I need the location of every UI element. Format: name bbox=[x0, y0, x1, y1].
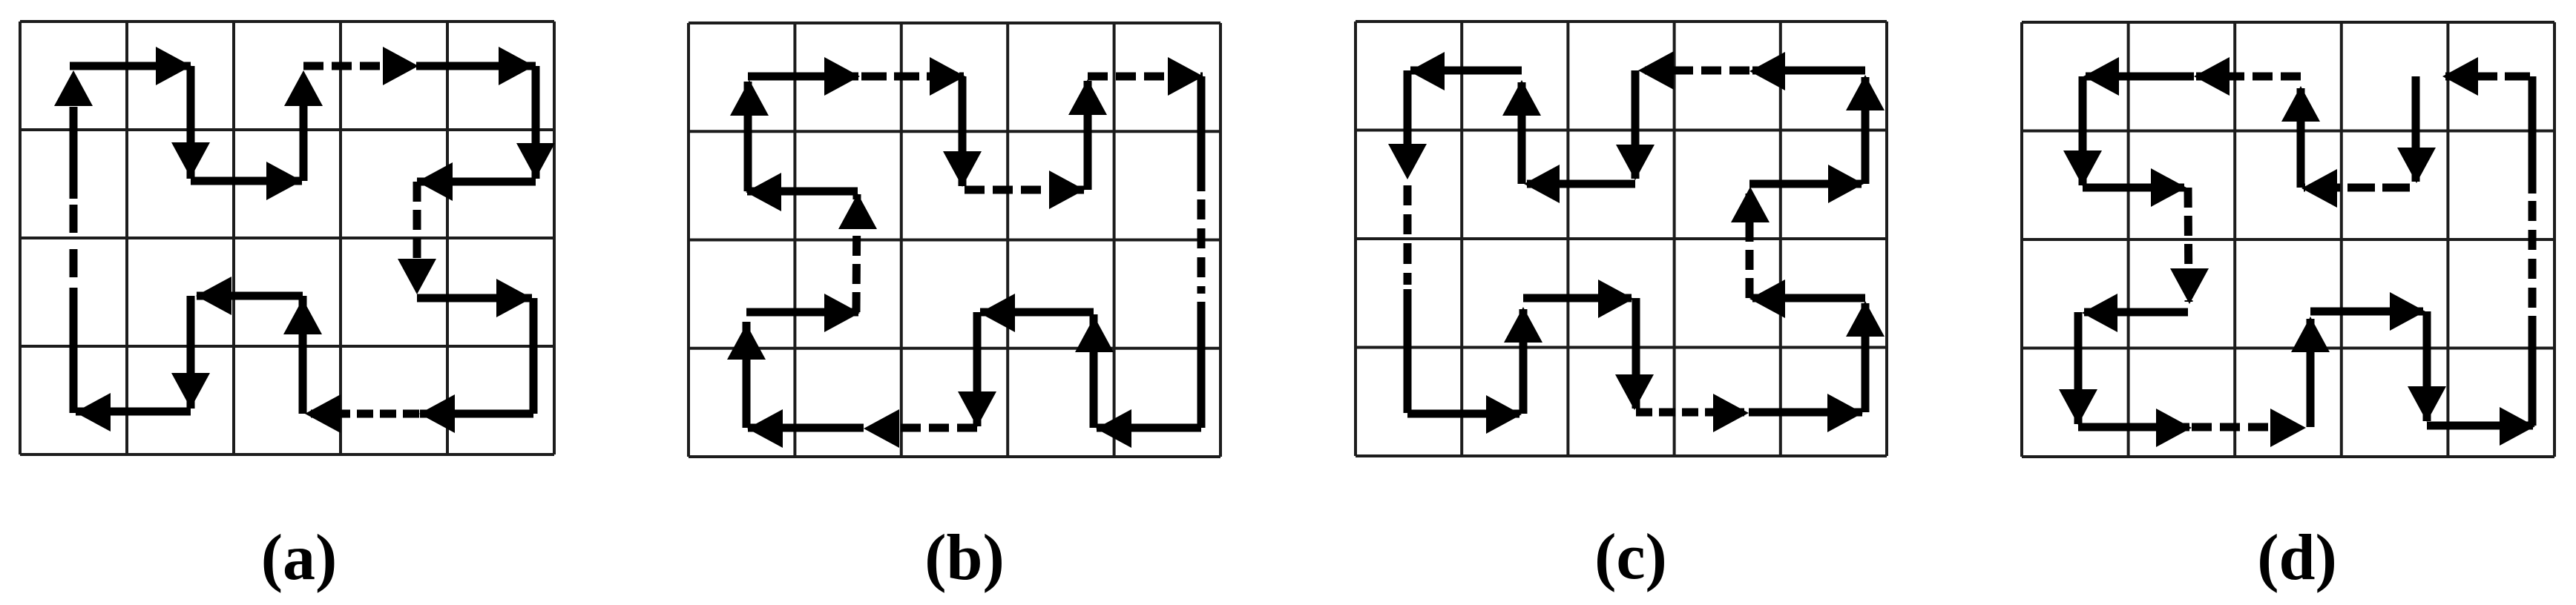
arrowhead b down into (3,4) bbox=[958, 391, 996, 427]
arrowhead d right into (2,4) bbox=[2156, 409, 2192, 447]
arrowhead a right into (2,1) bbox=[156, 47, 191, 85]
arrowhead c right into (4,4) bbox=[1713, 394, 1749, 432]
wire a (2,2)->(3,2) bbox=[191, 177, 302, 185]
arrowhead b right into (4,2) bbox=[1049, 171, 1085, 209]
arrowhead d left into (1,1) bbox=[2083, 57, 2119, 96]
wire d (3,2)->(3,1) bbox=[2297, 88, 2305, 188]
wire b (3,2)->(4,2) dashed bbox=[965, 186, 1084, 194]
arrowhead a right into (4,1) bbox=[383, 47, 418, 85]
wire d (2,4)->(3,4) dashed bbox=[2192, 423, 2304, 432]
wire c col1 dash3 bbox=[1404, 243, 1412, 264]
wire d (1,2)->(2,2) bbox=[2083, 184, 2184, 192]
arrowhead d left into (4,1) bbox=[2442, 57, 2478, 96]
arrowhead c right into (5,4) bbox=[1827, 394, 1863, 432]
wire d (1,3)->(1,4) bbox=[2074, 312, 2083, 424]
wire b (1,2)->(1,1) bbox=[744, 82, 752, 191]
arrowhead d left into (1,3) bbox=[2082, 294, 2117, 332]
wire c col1 upper bbox=[1404, 70, 1412, 145]
wire a (5,3)->(5,4) bbox=[530, 298, 538, 414]
arrowhead d right into (2,2) bbox=[2151, 168, 2186, 207]
wire a (4,1)->(5,1) bbox=[418, 62, 536, 70]
arrowhead c left into (4,3) bbox=[1749, 280, 1785, 318]
wire d (5,1)->(4,1) dashed bbox=[2445, 73, 2530, 81]
arrowhead b right into (3,1) bbox=[930, 57, 965, 96]
arrowhead d down into (4,4) bbox=[2408, 386, 2446, 422]
panel (a) 5x4 grid bbox=[20, 22, 554, 454]
wire a col1 lower bbox=[70, 288, 78, 413]
arrowhead a down into (2,2) bbox=[171, 142, 210, 178]
arrowhead a left into (1,4) bbox=[75, 393, 111, 432]
wire c (2,2)->(2,1) bbox=[1518, 82, 1526, 184]
wire b col5 upper bbox=[1197, 76, 1206, 191]
arrowhead a left into (2,3) bbox=[196, 277, 231, 315]
wire d (3,1)->(2,1) dashed bbox=[2195, 73, 2301, 81]
wire a (3,2)->(3,1) bbox=[300, 105, 308, 181]
wire b (4,4)->(4,3) bbox=[1090, 314, 1098, 428]
arrowhead b right into (2,3) bbox=[824, 294, 860, 332]
wire b (4,2)->(4,1) bbox=[1084, 81, 1092, 190]
panel (d) 5x4 grid bbox=[2022, 22, 2554, 457]
arrowhead c left into (2,2) bbox=[1524, 165, 1560, 203]
wire a (5,2)->(4,2) bbox=[417, 178, 536, 186]
arrowhead c up into (2,1) bbox=[1502, 80, 1541, 116]
arrowhead c right into (3,3) bbox=[1598, 280, 1634, 318]
arrowhead d right into (3,4) bbox=[2270, 409, 2306, 447]
wire a (1,1)->(2,1) bbox=[70, 62, 191, 70]
wire d (3,4)->(3,3) bbox=[2307, 319, 2315, 427]
wire a (5,4)->(4,4) bbox=[420, 410, 533, 418]
arrowhead c up into (5,3) bbox=[1846, 301, 1885, 337]
wire b (2,1)->(3,1) dashed bbox=[861, 73, 964, 81]
arrowhead a right into (5,3) bbox=[496, 279, 532, 317]
arrowhead a right into (5,1) bbox=[499, 47, 534, 85]
svg-text:(c): (c) bbox=[1594, 521, 1667, 593]
arrowhead b up into (1,3) bbox=[727, 324, 766, 360]
arrowhead b right into (2,1) bbox=[824, 57, 860, 96]
wire c (3,3)->(3,4) bbox=[1632, 298, 1640, 409]
wire d col5 upper bbox=[2529, 76, 2537, 194]
wire b (1,3)->(2,3) bbox=[746, 308, 858, 317]
wire b col5 middle dashed bbox=[1197, 199, 1206, 294]
wire b col5 lower bbox=[1197, 302, 1206, 428]
arrowhead b up into (4,3) bbox=[1075, 317, 1114, 352]
arrowhead c right into (2,4) bbox=[1486, 395, 1522, 434]
panel (c) 5x4 grid bbox=[1356, 22, 1887, 456]
wire c (5,3)->(4,3) bbox=[1752, 294, 1865, 302]
panel (b) 5x4 grid bbox=[689, 23, 1220, 457]
wire c col1 dash4 bbox=[1404, 273, 1412, 285]
wire b (5,4)->(4,4) bbox=[1097, 424, 1201, 432]
wire a col1 dash1 bbox=[70, 249, 78, 277]
wire a (2,1)->(2,2) bbox=[187, 66, 195, 179]
svg-text:(b): (b) bbox=[924, 522, 1005, 594]
wire a (4,4)->(3,4) dashed bbox=[304, 410, 419, 418]
arrowhead b up into (2,2) bbox=[838, 194, 877, 229]
arrowhead c left into (3,1) bbox=[1638, 51, 1674, 90]
wire d (2,1)->(1,1) bbox=[2086, 73, 2194, 81]
wire b (2,3)->(2,2) dashed bbox=[856, 194, 857, 312]
wire a col1 dash2 bbox=[70, 205, 78, 233]
wire c (5,2)->(5,1) bbox=[1862, 77, 1870, 184]
wire d col5 middle dashed bbox=[2529, 200, 2537, 308]
arrowhead c up into (4,2) bbox=[1731, 187, 1770, 222]
wire a (3,1)->(4,1) dashed bbox=[303, 62, 418, 70]
wire a (4,3)->(5,3) bbox=[417, 294, 532, 302]
arrowhead d right into (5,4) bbox=[2500, 407, 2535, 446]
arrowhead d right into (4,3) bbox=[2390, 292, 2425, 331]
wire d (1,4)->(2,4) bbox=[2078, 423, 2189, 432]
wire c col1 lower bbox=[1404, 289, 1412, 413]
wire d (4,2)->(3,2) dashed bbox=[2304, 184, 2410, 192]
arrowhead c down into (3,2) bbox=[1616, 145, 1655, 180]
arrowhead c left into (1,1) bbox=[1409, 52, 1445, 90]
wire b (4,3)->(3,3) bbox=[980, 308, 1094, 317]
arrowhead d up into (3,1) bbox=[2281, 86, 2320, 122]
wire d (4,3)->(4,4) bbox=[2423, 311, 2431, 421]
wire a (5,1)->(5,2) bbox=[532, 66, 540, 179]
arrowhead d left into (2,1) bbox=[2194, 57, 2230, 96]
wire a col1 upper bbox=[70, 107, 78, 199]
svg-text:(d): (d) bbox=[2257, 522, 2337, 594]
arrowhead c down into (3,4) bbox=[1615, 374, 1654, 410]
arrowhead d down into (1,2) bbox=[2063, 151, 2102, 186]
arrowhead c up into (2,3) bbox=[1504, 307, 1542, 343]
arrowhead b down into (3,2) bbox=[943, 151, 982, 187]
wire b (3,4)->(2,4) dashed bbox=[864, 424, 977, 432]
wire d (4,1)->(4,2) bbox=[2412, 76, 2420, 182]
arrowhead b right into (5,1) bbox=[1168, 57, 1203, 96]
arrowhead b left into (1,4) bbox=[747, 409, 783, 448]
wire c (4,3)->(4,2) dashed bbox=[1746, 189, 1754, 298]
wire d (2,3)->(1,3) bbox=[2084, 308, 2188, 317]
arrowhead b left into (4,4) bbox=[1096, 409, 1131, 448]
arrowhead c right into (5,2) bbox=[1828, 165, 1864, 203]
wire a (3,3)->(2,3) bbox=[197, 292, 303, 300]
wire d (4,4)->(5,4) bbox=[2427, 422, 2533, 430]
wire d (1,1)->(1,2) bbox=[2079, 76, 2087, 185]
arrowhead a down into (4,3) bbox=[398, 259, 436, 294]
wire b (1,1)->(2,1) bbox=[748, 73, 858, 81]
arrowhead d down into (1,4) bbox=[2059, 389, 2097, 425]
arrowhead b left into (1,2) bbox=[746, 173, 781, 211]
wire b (2,2)->(1,2) bbox=[747, 188, 858, 196]
wire a (3,4)->(3,3) bbox=[299, 296, 307, 414]
arrowhead a left into (4,2) bbox=[417, 162, 453, 201]
wire c (2,4)->(2,3) bbox=[1519, 309, 1528, 414]
arrowhead d down into (2,3) bbox=[2170, 268, 2209, 304]
wire d (3,3)->(4,3) bbox=[2310, 308, 2423, 316]
arrowhead b left into (3,3) bbox=[979, 294, 1015, 332]
wire c (3,2)->(2,2) bbox=[1527, 180, 1635, 188]
wire d (2,2)->(2,3) dashed bbox=[2188, 188, 2189, 302]
arrowhead d left into (3,2) bbox=[2301, 169, 2337, 208]
arrowhead b up into (4,1) bbox=[1068, 79, 1107, 115]
wire c (3,4)->(4,4) dashed bbox=[1636, 409, 1747, 417]
wire c (1,4)->(2,4) bbox=[1407, 410, 1519, 418]
arrowhead c left into (4,1) bbox=[1749, 52, 1785, 90]
arrowhead d up into (3,3) bbox=[2291, 317, 2330, 352]
wire c (4,1)->(3,1) dashed bbox=[1639, 67, 1749, 75]
wire b (3,3)->(3,4) bbox=[973, 312, 982, 426]
arrowhead b up into (1,1) bbox=[730, 80, 769, 116]
wire b (1,4)->(1,3) bbox=[743, 322, 751, 428]
wire d col5 lower bbox=[2529, 316, 2537, 426]
wire c (2,1)->(1,1) bbox=[1410, 67, 1522, 75]
arrowhead c up into (5,1) bbox=[1846, 75, 1885, 110]
arrowhead c down into (1,2) bbox=[1388, 144, 1427, 179]
wire c (2,3)->(3,3) bbox=[1523, 294, 1632, 302]
arrowhead a right into (3,2) bbox=[266, 162, 302, 200]
wire b (2,4)->(1,4) bbox=[748, 424, 864, 432]
arrowhead b left into (2,4) bbox=[864, 409, 899, 448]
arrowhead d down into (4,2) bbox=[2397, 148, 2436, 183]
arrowhead a down into (5,2) bbox=[516, 143, 555, 179]
arrowhead a up into (3,3) bbox=[283, 299, 322, 334]
wire c col1 dash1 bbox=[1404, 185, 1412, 205]
wire c (5,4)->(5,3) bbox=[1862, 303, 1870, 412]
wire c (4,2)->(5,2) bbox=[1749, 180, 1862, 188]
wire c (4,4)->(5,4) bbox=[1749, 409, 1862, 417]
wire b (4,1)->(5,1) dashed bbox=[1088, 73, 1203, 81]
arrowhead a down into (2,4) bbox=[171, 373, 210, 409]
wire a (2,4)->(1,4) bbox=[76, 408, 191, 416]
wire c col1 dash2 bbox=[1404, 214, 1412, 234]
wire b (3,1)->(3,2) bbox=[959, 76, 967, 186]
arrowhead a left into (3,4) bbox=[305, 394, 341, 433]
wire a (2,3)->(2,4) bbox=[187, 296, 195, 409]
wire a (4,2)->(4,3) dashed bbox=[413, 182, 421, 294]
svg-text:(a): (a) bbox=[261, 522, 338, 594]
wire c (3,1)->(3,2) bbox=[1632, 70, 1640, 179]
wire c (5,1)->(4,1) bbox=[1752, 67, 1865, 75]
arrowhead a up into (3,1) bbox=[284, 70, 323, 106]
arrowhead a up into (1,1) bbox=[54, 70, 93, 106]
arrowhead a left into (4,4) bbox=[419, 394, 455, 433]
